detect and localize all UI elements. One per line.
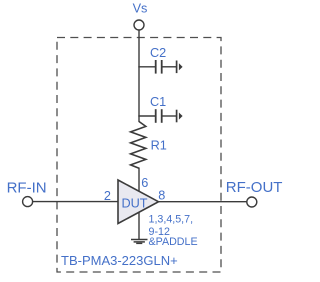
wire R1 to DUT/ground: [138, 168, 140, 240]
svg-text:6: 6: [141, 176, 148, 190]
resistor R1: [131, 122, 146, 169]
wire C1 branch left: [138, 115, 155, 117]
board outline (dashed test-board boundary): [57, 38, 221, 273]
op-amp DUT (amplifier triangle): [118, 180, 159, 224]
ground (below DUT): [131, 240, 148, 244]
svg-text:2: 2: [104, 189, 111, 203]
wire DUT pin 8 to RF-OUT: [157, 201, 247, 203]
capacitor C1: [156, 109, 162, 123]
svg-text:Vs: Vs: [133, 2, 148, 16]
svg-text:TB-PMA3-223GLN+: TB-PMA3-223GLN+: [61, 253, 178, 268]
terminal RF-IN: [23, 197, 33, 207]
ground (C1, sideways): [177, 110, 183, 123]
svg-text:RF-OUT: RF-OUT: [226, 179, 283, 196]
svg-text:1,3,4,5,7,: 1,3,4,5,7,: [149, 214, 194, 226]
svg-text:C1: C1: [150, 95, 166, 109]
svg-text:C2: C2: [150, 46, 166, 60]
wire Vs to R1 (main supply rail): [138, 30, 140, 122]
svg-text:R1: R1: [151, 139, 167, 153]
terminal Vs: [134, 20, 144, 30]
capacitor C2: [156, 60, 162, 74]
wire C2 branch left: [138, 66, 155, 68]
wire C2 to ground: [163, 66, 177, 68]
svg-text:DUT: DUT: [121, 196, 147, 210]
svg-text:RF-IN: RF-IN: [7, 179, 47, 196]
wire RF-IN to DUT pin 2: [33, 201, 119, 203]
terminal RF-OUT: [247, 197, 257, 207]
ground (C2, sideways): [177, 61, 183, 74]
svg-text:&PADDLE: &PADDLE: [149, 236, 198, 248]
svg-text:8: 8: [158, 188, 165, 202]
wire C1 to ground: [163, 115, 177, 117]
